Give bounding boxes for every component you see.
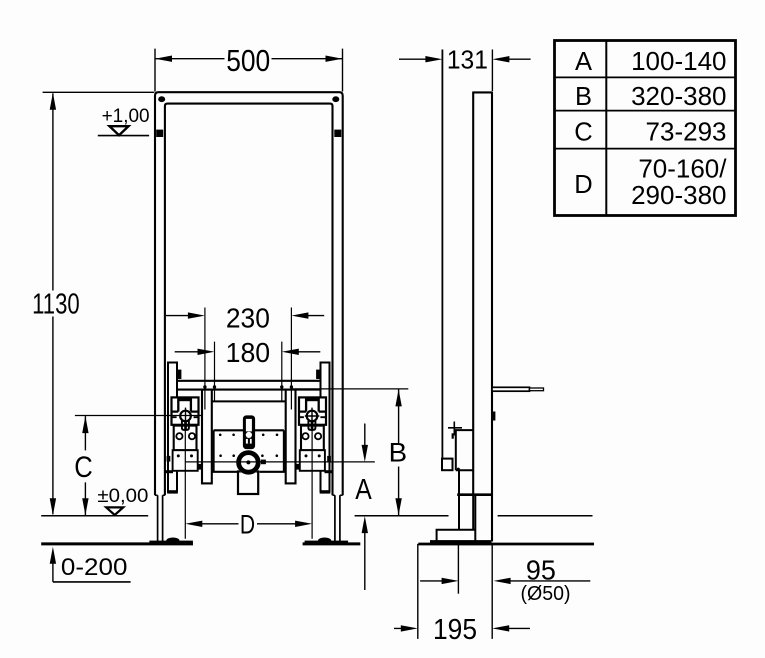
central screw lower bar [248, 439, 250, 444]
dim 500 arrows [155, 56, 172, 62]
left foot base [149, 541, 193, 545]
table outer border [555, 41, 736, 216]
right hanger bar [321, 363, 330, 492]
dim 1130 top reference line [43, 91, 155, 93]
drain outlet pipe [238, 471, 258, 494]
dim 1130 arrows [50, 93, 56, 110]
frame profile front edge [472, 92, 474, 495]
frame profile top cap [472, 91, 493, 93]
svg-text:320-380: 320-380 [631, 81, 726, 111]
left plate hole 2 [189, 433, 195, 439]
left bracket plate [174, 426, 197, 451]
left bracket side tab a [167, 456, 171, 462]
dim 180 extension lines [215, 342, 282, 401]
dim 95 arrows [442, 578, 459, 584]
dim B arrows [395, 389, 401, 406]
wall line [441, 50, 443, 459]
svg-text:A: A [575, 48, 592, 76]
right plate hole 1 [302, 433, 308, 439]
dim 500 line [155, 58, 342, 60]
dim 195 line [394, 627, 530, 629]
B leader line [291, 388, 408, 390]
floor line left [41, 542, 193, 545]
left fixing screw circle [180, 411, 191, 422]
svg-text:0-200: 0-200 [61, 554, 128, 581]
central back plate top edge [212, 400, 286, 402]
right bracket side tab b [296, 464, 300, 470]
level ±0,00 triangle [106, 507, 123, 515]
svg-text:100-140: 100-140 [631, 46, 726, 76]
dim 195 arrows [401, 625, 418, 631]
left foot tube [158, 495, 163, 541]
dim A lower arrow [364, 527, 366, 590]
right bracket plate [301, 426, 324, 451]
dim D arrows [185, 521, 202, 527]
floor line center-right [303, 542, 361, 545]
side foot base [430, 540, 492, 545]
dim 0-200 arrow [52, 557, 54, 582]
frame outer contour [155, 92, 343, 495]
dim 95 ext line [457, 544, 459, 594]
right foot base [305, 541, 349, 545]
central screw slot [246, 419, 252, 432]
left rail connector [165, 470, 173, 473]
table column divider [605, 41, 607, 216]
dim 131 ext right [491, 50, 493, 92]
svg-text:+1,00: +1,00 [102, 105, 150, 127]
dim 131 arrows [425, 56, 442, 62]
dim 195 ext lines [418, 544, 492, 639]
left keyhole slot [182, 421, 189, 430]
right hanger bottom cap [320, 490, 331, 493]
crossbar bolt dots [203, 385, 206, 388]
side fixing screw cross [448, 422, 462, 436]
right hanger notch [316, 370, 320, 379]
dim D line [196, 523, 302, 525]
left plate hole 1 [176, 433, 182, 439]
dim 230 arrows [188, 312, 205, 318]
right fixing screw crosshair [305, 408, 320, 425]
SIDE-VIEW [355, 50, 594, 546]
dim 1130 line [52, 93, 54, 514]
dim 500 extension lines [155, 49, 343, 92]
dim 131 line [399, 58, 531, 60]
drain leader clamp blob [261, 460, 266, 465]
left hanger bottom cap [167, 490, 178, 493]
right plate hole 2 [315, 433, 321, 439]
dim 180 arrows [198, 349, 215, 355]
right lower plate dots [305, 454, 308, 457]
crossbar [176, 381, 322, 390]
side drain pipe right edge [472, 495, 474, 530]
svg-text:±0,00: ±0,00 [97, 485, 148, 507]
right rail foot transition ticks [333, 494, 343, 496]
dim 230 line [166, 315, 325, 317]
rail clip right [334, 130, 341, 137]
FRONT-VIEW [41, 92, 360, 545]
svg-text:C: C [74, 451, 93, 484]
left mounting rail [202, 390, 212, 484]
plate dots row 2 [219, 454, 222, 457]
supply pipe [492, 387, 530, 391]
frame inner contour [165, 104, 333, 496]
frame profile rear edge [491, 92, 493, 541]
svg-text:180: 180 [226, 337, 271, 368]
dim 180 line [175, 351, 321, 353]
wall anchor box [442, 459, 453, 471]
side foot plate [437, 530, 475, 541]
corner screw right [332, 96, 339, 102]
level +1,00 line [98, 135, 149, 137]
svg-text:B: B [575, 83, 592, 111]
drain center dot [246, 460, 250, 464]
svg-text:195: 195 [433, 614, 477, 646]
right keyhole slot [308, 421, 315, 430]
svg-text:C: C [574, 119, 592, 147]
svg-text:73-293: 73-293 [646, 117, 727, 147]
svg-text:D: D [240, 510, 255, 540]
left hanger notch [177, 370, 181, 379]
left foot dome [166, 538, 179, 544]
dim D extension lines [185, 426, 312, 539]
right bracket side tab a [327, 456, 331, 462]
left clamp channel [178, 397, 191, 401]
dim 230 extension lines [205, 308, 292, 410]
dim C arrows [82, 416, 88, 433]
floor line right [418, 543, 594, 546]
rim level line mid [355, 515, 449, 517]
level +1,00 triangle [110, 126, 129, 135]
right foot tube [335, 495, 340, 541]
rim level line right [498, 515, 593, 517]
right clamp channel [306, 397, 319, 401]
left hanger bar [168, 363, 177, 492]
left lower plate dots [177, 454, 180, 457]
dim C line [84, 416, 86, 515]
right fixing screw circle [307, 411, 318, 422]
svg-text:B: B [389, 438, 408, 468]
svg-text:D: D [574, 171, 592, 199]
A leader line (drain centerline) [185, 461, 374, 463]
svg-text:1130: 1130 [32, 289, 80, 321]
right keyhole bar [311, 420, 314, 429]
svg-text:A: A [355, 474, 372, 506]
svg-text:500: 500 [226, 44, 270, 78]
table row dividers [555, 77, 736, 148]
drain circle ring [236, 450, 260, 474]
rail clip left [156, 130, 163, 137]
central screw circle [246, 432, 252, 438]
left bracket side tab b [198, 464, 202, 470]
svg-text:230: 230 [226, 303, 270, 334]
svg-text:95: 95 [526, 554, 556, 585]
svg-text:290-380: 290-380 [631, 180, 726, 210]
lower leg inner line [474, 495, 476, 541]
side bracket box [456, 430, 473, 470]
central screw lower slot [246, 439, 252, 444]
left keyhole bar [184, 420, 187, 429]
svg-text:70-160/: 70-160/ [638, 153, 727, 183]
anchor circle [457, 468, 460, 471]
svg-text:131: 131 [447, 46, 488, 74]
transition thick line [457, 493, 493, 496]
left lower plate [173, 450, 198, 471]
DIMS [32, 44, 590, 646]
level ±0,00 line [41, 515, 148, 517]
dim B line [398, 389, 400, 515]
TABLE [555, 41, 736, 216]
corner screw left [158, 96, 165, 102]
central adjustment screw body [243, 415, 255, 449]
central front plate [212, 430, 286, 472]
side bracket tab [452, 433, 454, 438]
C leader line [75, 415, 202, 417]
right mounting rail [286, 390, 296, 484]
svg-text:(Ø50): (Ø50) [521, 582, 571, 605]
right rail connector [325, 470, 333, 473]
right lower plate [300, 450, 325, 471]
right foot dome [318, 538, 331, 544]
left clamp box [172, 397, 199, 424]
left rail foot transition ticks [155, 494, 165, 496]
dim 95 line [420, 580, 590, 582]
dim 0-200 underline [53, 581, 131, 583]
profile clip black tab [492, 412, 495, 421]
side drain pipe left edge [458, 470, 460, 530]
right clamp box [299, 397, 326, 424]
supply pipe end [530, 388, 544, 391]
plate dots row 1 [219, 434, 222, 437]
left fixing screw vertical crosshair [185, 408, 187, 425]
dim A upper arrow [364, 424, 366, 452]
